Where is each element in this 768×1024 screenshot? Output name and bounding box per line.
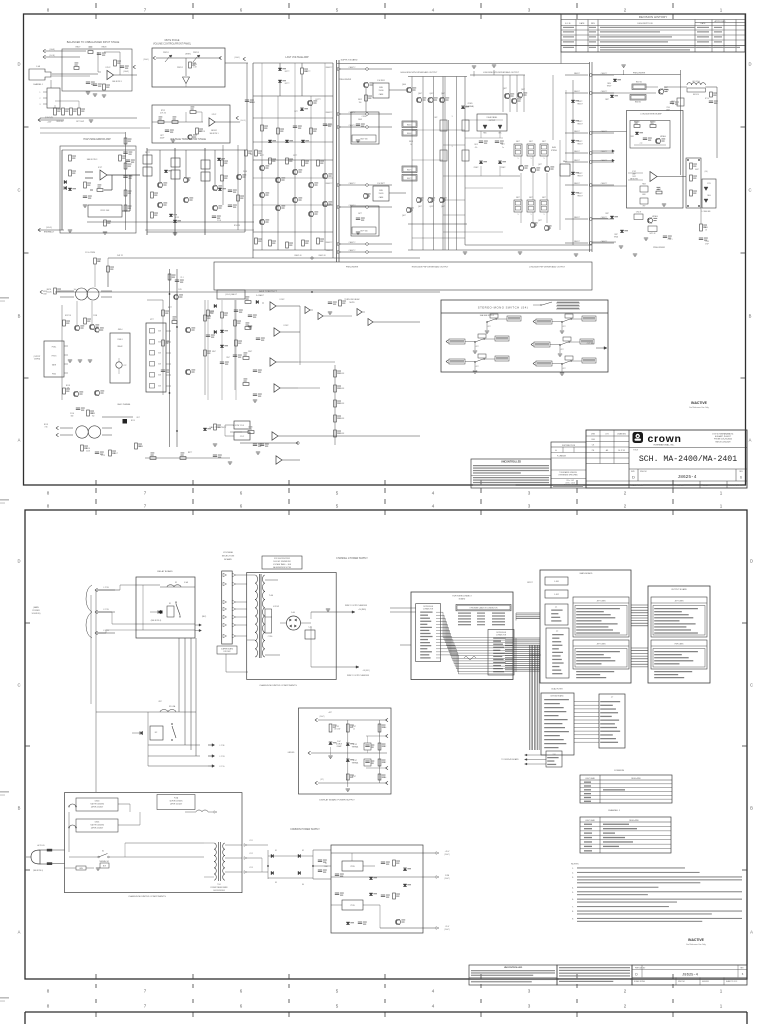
wires W2 bbox=[253, 159, 333, 161]
diode D48 bbox=[346, 922, 350, 925]
box bbox=[630, 95, 646, 101]
resistor R68 bbox=[162, 340, 165, 346]
ground G18 bbox=[621, 64, 625, 66]
svg-text:R607 8.2: R607 8.2 bbox=[636, 82, 642, 84]
reg outputs R1 bbox=[436, 852, 439, 855]
resistor R22 bbox=[124, 205, 127, 211]
svg-text:TH60?-?: TH60?-? bbox=[577, 124, 583, 126]
box bbox=[402, 121, 417, 128]
grn wire label G1 bbox=[76, 866, 86, 870]
svg-text:(1-B-8): (1-B-8) bbox=[49, 49, 55, 51]
resistor R20 bbox=[124, 163, 127, 169]
diode D46 bbox=[403, 868, 407, 871]
svg-text:4.7Ω 5W: 4.7Ω 5W bbox=[273, 606, 279, 608]
svg-text:+15V: +15V bbox=[47, 122, 52, 124]
R410 box R1 bbox=[648, 226, 657, 232]
resistor R83 bbox=[334, 385, 337, 392]
pin bbox=[552, 652, 563, 653]
svg-text:FAULT PROTECT: FAULT PROTECT bbox=[259, 290, 277, 293]
diode D5 bbox=[164, 170, 168, 173]
capacitor C38 bbox=[234, 309, 238, 311]
transformer T60 bbox=[255, 575, 258, 583]
pin bbox=[576, 657, 611, 658]
resistor R42 bbox=[277, 128, 280, 134]
revision row bbox=[563, 27, 574, 28]
transistor T50 bbox=[185, 369, 190, 374]
op-amp O12 bbox=[368, 319, 373, 326]
ground G22 bbox=[68, 359, 72, 361]
svg-text:SCH. MA-2400/MA-2401: SCH. MA-2400/MA-2401 bbox=[639, 454, 737, 464]
pin bbox=[493, 662, 505, 663]
wires display to J7 W1 bbox=[574, 701, 599, 703]
pin bbox=[552, 655, 560, 656]
pin bbox=[493, 641, 501, 642]
svg-text:CR6??: CR6?? bbox=[578, 173, 583, 175]
transistor T32 bbox=[511, 98, 516, 103]
op-amp O9 bbox=[305, 307, 310, 314]
common bridge C1 bbox=[255, 844, 268, 846]
svg-text:D4: D4 bbox=[302, 884, 304, 886]
text bbox=[473, 467, 549, 468]
thermistor blob T1 bbox=[123, 419, 128, 424]
pin bbox=[420, 657, 430, 658]
svg-text:J8?? LINES: J8?? LINES bbox=[596, 601, 606, 603]
zone tick bbox=[576, 999, 578, 1003]
pin bbox=[576, 663, 601, 664]
svg-text:S1.23: S1.23 bbox=[175, 217, 179, 219]
box bbox=[222, 571, 233, 644]
svg-text:R? 10: R? 10 bbox=[705, 98, 709, 100]
svg-text:C6?: C6? bbox=[563, 326, 566, 328]
pin bbox=[551, 617, 560, 618]
boundary bbox=[336, 60, 338, 262]
wire W17 bbox=[389, 192, 406, 194]
op-amp O2 bbox=[209, 118, 215, 126]
svg-text:SEE NOTE 3: SEE NOTE 3 bbox=[112, 81, 122, 83]
text bbox=[473, 482, 549, 483]
wire W9 bbox=[215, 121, 240, 123]
capacitor C34 bbox=[253, 393, 257, 395]
MOV box M1 bbox=[100, 863, 109, 868]
pin bbox=[493, 647, 504, 648]
transistor T12 bbox=[259, 219, 264, 224]
pin bbox=[600, 727, 617, 728]
pin stub P3 bbox=[166, 352, 171, 354]
text bbox=[559, 978, 630, 979]
resistor R93 bbox=[378, 774, 381, 780]
svg-text:C1.25: C1.25 bbox=[101, 455, 105, 457]
diode D25 bbox=[635, 132, 639, 135]
pin tick P2 bbox=[436, 614, 441, 616]
transistor T33 bbox=[517, 92, 522, 97]
capacitor C44 bbox=[318, 869, 322, 871]
wire W7 bbox=[185, 84, 187, 88]
pin bbox=[600, 742, 618, 743]
chassis out chevrons C1 bbox=[244, 844, 247, 847]
connector C7 bbox=[236, 116, 239, 118]
selector pin S3 bbox=[223, 600, 227, 604]
right vertical R1 bbox=[246, 63, 248, 150]
zone tick bbox=[25, 745, 30, 747]
zone tick bbox=[192, 510, 194, 515]
svg-text:R410: R410 bbox=[704, 227, 708, 229]
zone tick bbox=[384, 999, 386, 1003]
svg-text:R8?? 1K: R8?? 1K bbox=[199, 131, 205, 133]
pin tick P13 bbox=[436, 648, 441, 650]
capacitor C41 bbox=[365, 744, 369, 746]
pin bbox=[493, 665, 501, 666]
box bbox=[527, 200, 535, 212]
svg-text:CH60?-?: CH60?-? bbox=[349, 250, 356, 252]
wire W24 bbox=[61, 305, 63, 340]
text bbox=[473, 470, 549, 471]
wire bbox=[337, 63, 590, 65]
box bbox=[540, 200, 548, 212]
pin bbox=[600, 738, 616, 739]
svg-text:R3??: R3?? bbox=[188, 452, 192, 454]
wire FB bbox=[338, 205, 342, 208]
svg-text:TH60?-?: TH60?-? bbox=[577, 176, 583, 178]
long rails right L1 bbox=[169, 269, 171, 447]
diode D30 bbox=[220, 330, 224, 333]
capacitor C13 bbox=[212, 215, 216, 217]
pin P1 bbox=[43, 91, 47, 93]
output arrows channel1 O1 bbox=[352, 611, 355, 613]
resistor R87 bbox=[329, 724, 332, 732]
resistor R51 bbox=[690, 190, 693, 196]
pin bbox=[654, 617, 693, 618]
S4 right out S1 bbox=[596, 347, 604, 349]
svg-text:SHEET 2 OF 3: SHEET 2 OF 3 bbox=[726, 981, 737, 983]
ground G37 bbox=[326, 608, 330, 610]
svg-text:D-60: D-60 bbox=[291, 612, 295, 614]
ground G17 bbox=[633, 253, 637, 255]
bank cross rows B1 bbox=[443, 129, 465, 131]
svg-text:INACTIVE: INACTIVE bbox=[691, 401, 708, 405]
transistor T37 bbox=[530, 222, 535, 227]
pin bbox=[552, 634, 563, 635]
selector pin S1 bbox=[223, 573, 227, 577]
pin bbox=[493, 656, 502, 657]
svg-text:J8625-4: J8625-4 bbox=[682, 973, 699, 977]
capacitor C32 bbox=[256, 337, 260, 339]
box bbox=[152, 105, 230, 143]
transistor T14 bbox=[275, 205, 280, 210]
svg-text:16 PIN EDGE: 16 PIN EDGE bbox=[496, 632, 506, 634]
selector pin S7 bbox=[223, 634, 227, 638]
wire FB bbox=[565, 184, 588, 186]
svg-text:DOUBLE: DOUBLE bbox=[336, 744, 342, 746]
resistor R90 bbox=[378, 724, 381, 732]
pin bbox=[547, 757, 558, 758]
svg-text:UNCONTROLLED: UNCONTROLLED bbox=[501, 460, 521, 463]
wire W28 bbox=[147, 299, 163, 301]
translator right edge T1 bbox=[222, 145, 224, 205]
pin bbox=[576, 629, 613, 630]
svg-text:C612: C612 bbox=[474, 144, 478, 146]
resistor R64 bbox=[214, 424, 217, 430]
resistor R31 bbox=[255, 150, 258, 156]
svg-text:20.5K: 20.5K bbox=[86, 451, 90, 453]
pin bbox=[576, 617, 615, 618]
text bbox=[473, 484, 516, 485]
svg-text:IC10?: IC10? bbox=[106, 67, 111, 69]
svg-text:P&P INTERCONNECT: P&P INTERCONNECT bbox=[452, 596, 472, 598]
pin bbox=[551, 620, 561, 621]
svg-text:IC2??: IC2?? bbox=[315, 99, 320, 101]
transformer bbox=[76, 288, 88, 300]
pin bbox=[552, 648, 559, 649]
capacitor C2 bbox=[97, 52, 101, 54]
pin bbox=[576, 620, 601, 621]
svg-text:C609: C609 bbox=[358, 119, 362, 121]
connector arrow C3 bbox=[208, 765, 212, 767]
svg-text:CH60?-?: CH60?-? bbox=[349, 242, 356, 244]
svg-text:CHANNEL 1 POWER SUPPLY: CHANNEL 1 POWER SUPPLY bbox=[336, 557, 368, 560]
text bbox=[559, 981, 613, 982]
svg-text:C6?: C6? bbox=[488, 326, 491, 328]
transistor T25 bbox=[439, 97, 444, 102]
regulator bbox=[342, 861, 363, 871]
text bbox=[471, 970, 555, 971]
capacitor C6 bbox=[245, 99, 249, 101]
diode D38 bbox=[346, 743, 350, 746]
resistor R41 bbox=[261, 125, 264, 131]
connector C26 bbox=[386, 734, 389, 736]
svg-text:C1.14 47/50M: C1.14 47/50M bbox=[85, 252, 96, 254]
pin bbox=[654, 623, 695, 624]
ground G3 bbox=[102, 94, 106, 96]
wires W1 bbox=[147, 149, 245, 151]
ground G14 bbox=[463, 251, 467, 253]
ground G12 bbox=[356, 231, 360, 233]
pin bbox=[600, 734, 613, 735]
svg-text:R809: R809 bbox=[642, 184, 646, 186]
svg-text:(2-B-8): (2-B-8) bbox=[47, 292, 52, 294]
pin bbox=[551, 610, 562, 611]
legend L1 bbox=[556, 302, 580, 304]
pin bbox=[576, 632, 620, 633]
svg-text:J6?? LINES: J6?? LINES bbox=[674, 601, 684, 603]
diode D36 bbox=[140, 731, 143, 735]
diode D1 bbox=[68, 188, 72, 191]
left rail resistor boxes L1 bbox=[440, 120, 447, 131]
ground G33 bbox=[473, 370, 477, 372]
pin tick P1 bbox=[436, 611, 441, 613]
svg-text:R808: R808 bbox=[657, 189, 661, 191]
relay K2 coil R1 bbox=[150, 726, 163, 740]
svg-text:(1-B-3): (1-B-3) bbox=[123, 71, 129, 73]
transistor T16 bbox=[292, 197, 297, 202]
svg-text:SHEET 1 OF 3: SHEET 1 OF 3 bbox=[729, 485, 742, 487]
svg-text:P-CHANGE: P-CHANGE bbox=[557, 455, 567, 458]
pin bbox=[544, 747, 558, 748]
svg-text:NE5532: NE5532 bbox=[211, 130, 217, 132]
divider resistor D3 bbox=[150, 351, 155, 356]
svg-text:CH60?-?: CH60?-? bbox=[349, 183, 356, 185]
svg-text:+15 V: +15 V bbox=[445, 851, 451, 853]
transistor T17 bbox=[308, 182, 313, 187]
svg-text:3: 3 bbox=[40, 104, 41, 106]
out wire O1 bbox=[102, 416, 133, 418]
switch group bbox=[449, 339, 465, 344]
resistor R13 bbox=[196, 128, 199, 134]
plug prongs P1 bbox=[47, 849, 52, 851]
pin stub P6 bbox=[166, 385, 171, 387]
svg-text:L1? B: L1? B bbox=[104, 587, 110, 589]
pin bbox=[420, 636, 432, 637]
pin bbox=[420, 618, 430, 619]
connector C24 bbox=[315, 781, 318, 783]
fuse symbol F1 bbox=[196, 810, 208, 812]
connector C23 bbox=[308, 751, 311, 753]
pin bbox=[654, 608, 698, 609]
svg-text:FB60?-?: FB60?-? bbox=[326, 205, 333, 207]
svg-text:GROUND: GROUND bbox=[288, 752, 296, 754]
capacitor C43 bbox=[318, 859, 322, 861]
resistor R3 bbox=[88, 51, 93, 54]
wire bundle bbox=[516, 612, 540, 614]
transistor T24 bbox=[428, 97, 433, 102]
wire FB bbox=[338, 67, 342, 70]
right vertical R2 bbox=[379, 720, 381, 783]
text bbox=[473, 479, 549, 480]
svg-text:CH60?-?: CH60?-? bbox=[601, 91, 607, 93]
wire W12 bbox=[85, 171, 93, 173]
svg-text:15K: 15K bbox=[250, 154, 253, 156]
box bbox=[540, 144, 548, 156]
svg-text:SUPPLY BOARD: SUPPLY BOARD bbox=[341, 59, 358, 62]
connector C11 bbox=[56, 426, 59, 428]
diode D9 bbox=[278, 68, 282, 71]
pin bbox=[493, 668, 503, 669]
svg-text:C706: C706 bbox=[666, 107, 670, 109]
bus wire lower B1 bbox=[55, 291, 440, 293]
thermal switch S2 T1 bbox=[88, 856, 97, 858]
capacitor C48 bbox=[381, 894, 385, 896]
wire W19 bbox=[664, 86, 687, 88]
wire bundle bbox=[505, 637, 540, 639]
svg-text:COMMON POWER SUPPLY: COMMON POWER SUPPLY bbox=[290, 829, 320, 831]
zone tick bbox=[95, 999, 97, 1003]
svg-text:PGM-: PGM- bbox=[52, 374, 57, 376]
divider resistor D2 bbox=[150, 340, 155, 345]
bank2 gnd B1 bbox=[493, 70, 495, 75]
ground G35 bbox=[558, 353, 562, 355]
transistor T23 bbox=[416, 97, 421, 102]
svg-text:SCALE NONE: SCALE NONE bbox=[631, 484, 644, 487]
pin bbox=[420, 654, 429, 655]
pin bbox=[600, 716, 612, 717]
wire FB bbox=[565, 152, 588, 154]
resistor R65 bbox=[150, 457, 156, 460]
svg-text:B: B bbox=[18, 806, 21, 811]
svg-text:FB60?-?: FB60?-? bbox=[326, 112, 333, 114]
svg-text:OUT MB: OUT MB bbox=[587, 343, 594, 345]
diode D7 bbox=[218, 188, 222, 191]
diode D6 bbox=[217, 158, 221, 161]
svg-text:CR6??: CR6?? bbox=[578, 121, 583, 123]
svg-text:C30?: C30? bbox=[226, 357, 230, 359]
resistor R58 bbox=[168, 274, 171, 280]
svg-text:ERR/FAULT: ERR/FAULT bbox=[44, 231, 55, 234]
pin tick P14 bbox=[436, 651, 441, 653]
resistor R6 bbox=[62, 108, 65, 115]
error amp left rail E1 bbox=[125, 132, 127, 230]
resistor R57 bbox=[84, 318, 87, 324]
resistor R7 bbox=[70, 108, 73, 115]
diode D20 bbox=[571, 140, 575, 143]
capacitor C30 bbox=[233, 354, 237, 356]
vert rail 680 V1 bbox=[680, 70, 682, 175]
wire W5 bbox=[114, 74, 138, 76]
svg-text:STEREO-MONO SWITCH (S4): STEREO-MONO SWITCH (S4) bbox=[478, 306, 529, 310]
svg-text:TH60?: TH60? bbox=[607, 86, 612, 88]
capacitor C11 bbox=[228, 189, 232, 191]
svg-text:OTHERWISE SPECIFIED: OTHERWISE SPECIFIED bbox=[558, 475, 578, 477]
svg-text:FB60?-?: FB60?-? bbox=[326, 125, 333, 127]
transistor T26 bbox=[406, 207, 411, 212]
box bbox=[477, 114, 507, 131]
capacitor C47 bbox=[381, 861, 385, 863]
resistor R71 bbox=[234, 320, 237, 326]
pin bbox=[552, 641, 561, 642]
op-amp O5 bbox=[270, 302, 276, 310]
pin bbox=[493, 653, 505, 654]
box bbox=[247, 573, 337, 680]
svg-text:FOR 100V/120V/220V/: FOR 100V/120V/220V/ bbox=[274, 558, 290, 560]
box bbox=[136, 577, 195, 638]
svg-text:1.5K R6??: 1.5K R6?? bbox=[377, 183, 385, 185]
selector pin S5 bbox=[223, 615, 227, 619]
inductor L601 bbox=[687, 83, 692, 85]
svg-text:(2-B-?): (2-B-?) bbox=[445, 929, 450, 931]
transformer bbox=[76, 426, 88, 438]
box bbox=[632, 84, 646, 90]
text bbox=[559, 967, 630, 968]
transistor T39 bbox=[658, 89, 663, 94]
svg-text:+LV (RED): +LV (RED) bbox=[358, 609, 367, 611]
diode D37 bbox=[329, 742, 333, 745]
svg-text:L1? G: L1? G bbox=[103, 630, 109, 632]
pin bbox=[420, 633, 430, 634]
svg-text:OUT: OUT bbox=[136, 417, 139, 419]
capacitor C31 bbox=[248, 314, 252, 316]
zone tick bbox=[576, 14, 578, 19]
svg-text:DISPLAY BOARD POWER SUPPLY: DISPLAY BOARD POWER SUPPLY bbox=[319, 799, 355, 802]
squiggle S1 bbox=[464, 657, 476, 660]
svg-text:DISTRIBUTION: DISTRIBUTION bbox=[562, 445, 576, 447]
box bbox=[402, 175, 417, 182]
mid wires M1 bbox=[298, 361, 335, 363]
transistor T20 bbox=[322, 201, 327, 206]
svg-text:470P: 470P bbox=[705, 244, 708, 246]
wire FB bbox=[565, 242, 588, 244]
resistor R14 bbox=[69, 155, 72, 161]
zone tick bbox=[672, 999, 674, 1003]
wire bundle bbox=[631, 604, 648, 606]
text bbox=[471, 972, 555, 973]
wire W22 bbox=[700, 208, 702, 224]
box bbox=[560, 164, 570, 176]
selector pin out S7 bbox=[232, 634, 236, 638]
svg-text:DESCRIPTION: DESCRIPTION bbox=[638, 23, 653, 25]
revision row bbox=[563, 47, 574, 48]
diode D14 bbox=[301, 140, 305, 143]
svg-text:LOW-SIDE NPN DRIVER AND OUTPUT: LOW-SIDE NPN DRIVER AND OUTPUT bbox=[483, 71, 520, 74]
relay K1 coil R1 bbox=[167, 606, 174, 617]
switch group bbox=[449, 359, 465, 364]
